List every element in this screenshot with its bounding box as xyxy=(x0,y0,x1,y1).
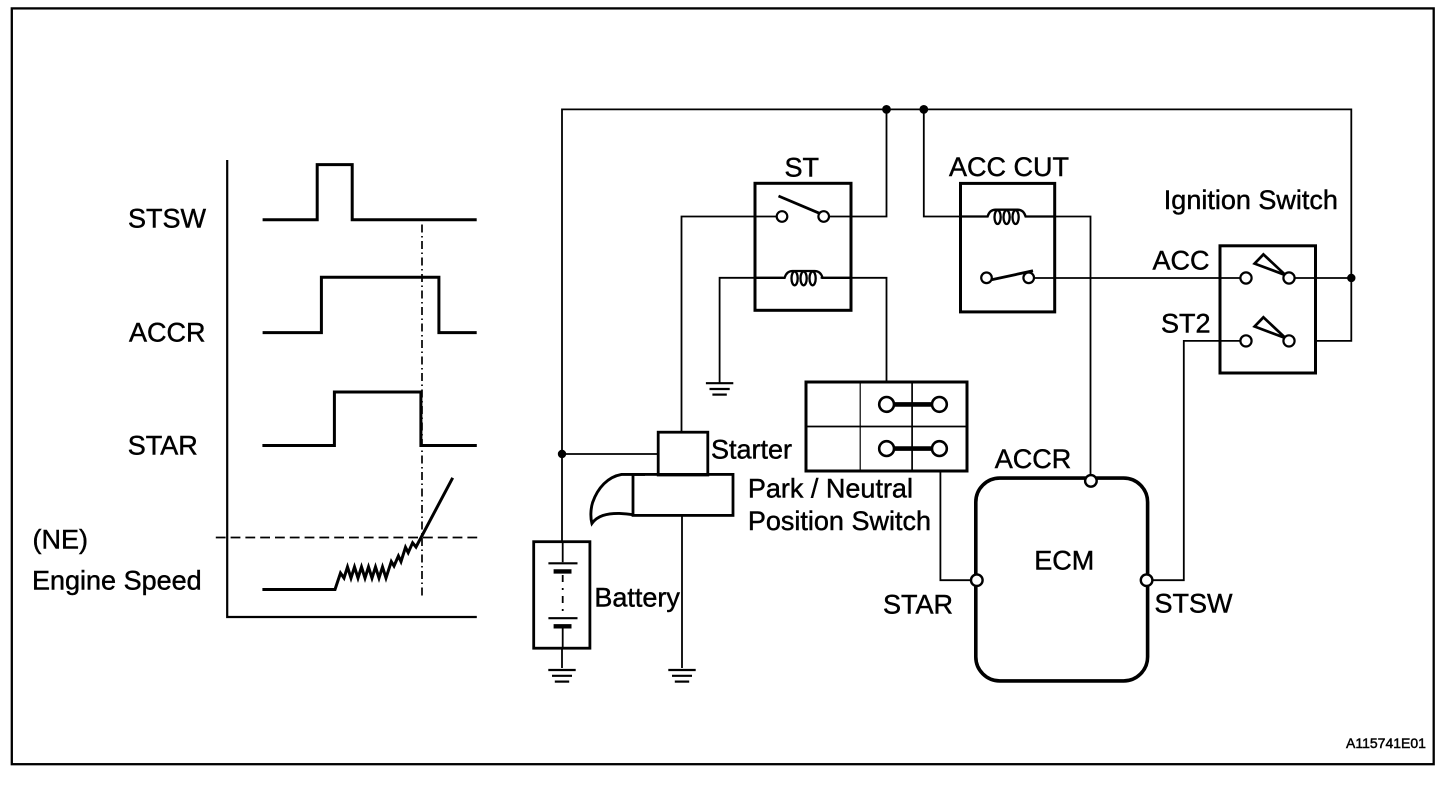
svg-text:ST: ST xyxy=(785,153,820,183)
wire ACCR waveform xyxy=(263,277,477,332)
switch park/neutral middle horizontal divider xyxy=(806,426,967,428)
switch park/neutral left vertical divider xyxy=(859,382,861,471)
svg-text:ECM: ECM xyxy=(1034,546,1094,576)
wire battery to starter solenoid xyxy=(562,453,658,455)
battery internal lead top xyxy=(562,543,564,562)
svg-text:STSW: STSW xyxy=(128,204,207,234)
switch ignition ACC right terminal xyxy=(1283,272,1294,283)
svg-text:Engine Speed: Engine Speed xyxy=(32,566,202,596)
svg-text:STSW: STSW xyxy=(1155,589,1234,619)
switch park/neutral row2 left terminal xyxy=(879,441,894,456)
wire park/neutral to ECM STAR xyxy=(940,471,971,580)
dash-dot vertical reference line xyxy=(421,225,423,596)
dashed horizontal reference line xyxy=(216,537,479,539)
wire battery to ground xyxy=(561,648,563,668)
wire ST switch right to top bus xyxy=(829,109,887,216)
battery internal dash link xyxy=(562,575,564,612)
relay ACC CUT contact blade xyxy=(992,271,1034,280)
svg-text:A115741E01: A115741E01 xyxy=(1346,735,1426,751)
terminal ECM STSW xyxy=(1141,574,1153,586)
svg-text:Park / Neutral: Park / Neutral xyxy=(748,474,913,504)
wire ST switch left to starter solenoid xyxy=(682,217,777,433)
svg-text:STAR: STAR xyxy=(128,431,198,461)
svg-text:Battery: Battery xyxy=(594,583,680,613)
junction ACC / ignition right xyxy=(1347,274,1355,282)
wire STAR waveform xyxy=(262,392,476,446)
wire ACC CUT switch to ignition ACC xyxy=(1034,277,1241,279)
svg-text:ST2: ST2 xyxy=(1161,309,1211,339)
switch park/neutral row1 contact bar xyxy=(890,402,936,407)
svg-text:Starter: Starter xyxy=(711,435,792,465)
wire ST coil left to ground xyxy=(720,278,783,383)
switch park/neutral box xyxy=(806,382,967,471)
ECM box xyxy=(976,478,1148,681)
svg-text:Position Switch: Position Switch xyxy=(748,506,931,536)
svg-text:ACC: ACC xyxy=(1153,246,1210,276)
wire STSW waveform xyxy=(263,165,477,220)
wire ACC CUT coil right to ECM ACCR xyxy=(1055,217,1091,476)
terminal ECM ACCR xyxy=(1085,475,1097,487)
svg-text:ACCR: ACCR xyxy=(129,318,206,348)
relay ACC CUT contact right terminal xyxy=(1023,273,1034,284)
switch ignition ST2 blade xyxy=(1255,317,1286,338)
wire ignition ST2 left to ECM STSW xyxy=(1152,341,1240,580)
wire battery to top bus and across to right drop xyxy=(562,109,1351,541)
wire ACC CUT coil left to top bus xyxy=(924,109,961,216)
switch park/neutral row2 contact bar xyxy=(890,446,936,451)
ground ST relay coil xyxy=(706,383,733,394)
svg-text:Ignition Switch: Ignition Switch xyxy=(1164,185,1338,215)
junction battery/starter node xyxy=(558,450,566,458)
wire engine speed waveform xyxy=(262,478,452,590)
ground battery xyxy=(548,670,575,682)
relay ACC CUT box xyxy=(961,183,1055,312)
starter body xyxy=(633,474,733,515)
svg-text:ACC CUT: ACC CUT xyxy=(949,152,1069,182)
starter solenoid box xyxy=(658,432,708,475)
relay ACC CUT coil xyxy=(961,210,1055,224)
switch ignition box xyxy=(1220,246,1316,373)
starter curl xyxy=(591,474,645,523)
terminal ECM STAR xyxy=(971,574,983,586)
ground starter xyxy=(668,670,695,682)
svg-text:ACCR: ACCR xyxy=(995,444,1072,474)
svg-text:STAR: STAR xyxy=(883,590,953,620)
wire ST coil right to park/neutral switch xyxy=(821,278,887,382)
switch ignition ACC blade xyxy=(1255,254,1286,275)
relay ST contact right terminal xyxy=(818,211,829,222)
switch ignition ACC left terminal xyxy=(1240,272,1251,283)
timing chart axis xyxy=(227,160,477,617)
junction top bus / ACC CUT xyxy=(919,105,928,114)
battery cell 1 negative plate xyxy=(554,569,572,573)
switch park/neutral row1 left terminal xyxy=(879,397,894,412)
switch park/neutral right vertical divider xyxy=(911,382,913,471)
svg-text:(NE): (NE) xyxy=(33,525,89,555)
switch ignition ST2 right terminal xyxy=(1283,335,1294,346)
junction top bus / ST relay xyxy=(882,105,891,114)
relay ST contact blade xyxy=(779,196,820,213)
relay ST box xyxy=(755,183,851,310)
battery cell 2 negative plate xyxy=(554,624,572,628)
relay ST contact left terminal xyxy=(777,211,788,222)
battery cell 2 positive plate xyxy=(548,617,577,619)
battery internal lead bottom xyxy=(562,629,564,648)
wire ignition ACC right to junction xyxy=(1295,277,1352,279)
battery box xyxy=(534,542,590,649)
switch ignition ST2 left terminal xyxy=(1240,335,1251,346)
wire starter body to ground xyxy=(681,515,683,668)
relay ST coil xyxy=(755,271,851,285)
switch park/neutral row2 right terminal xyxy=(932,441,947,456)
battery cell 1 positive plate xyxy=(548,562,577,564)
relay ACC CUT contact left terminal xyxy=(981,273,992,284)
switch park/neutral row1 right terminal xyxy=(932,397,947,412)
